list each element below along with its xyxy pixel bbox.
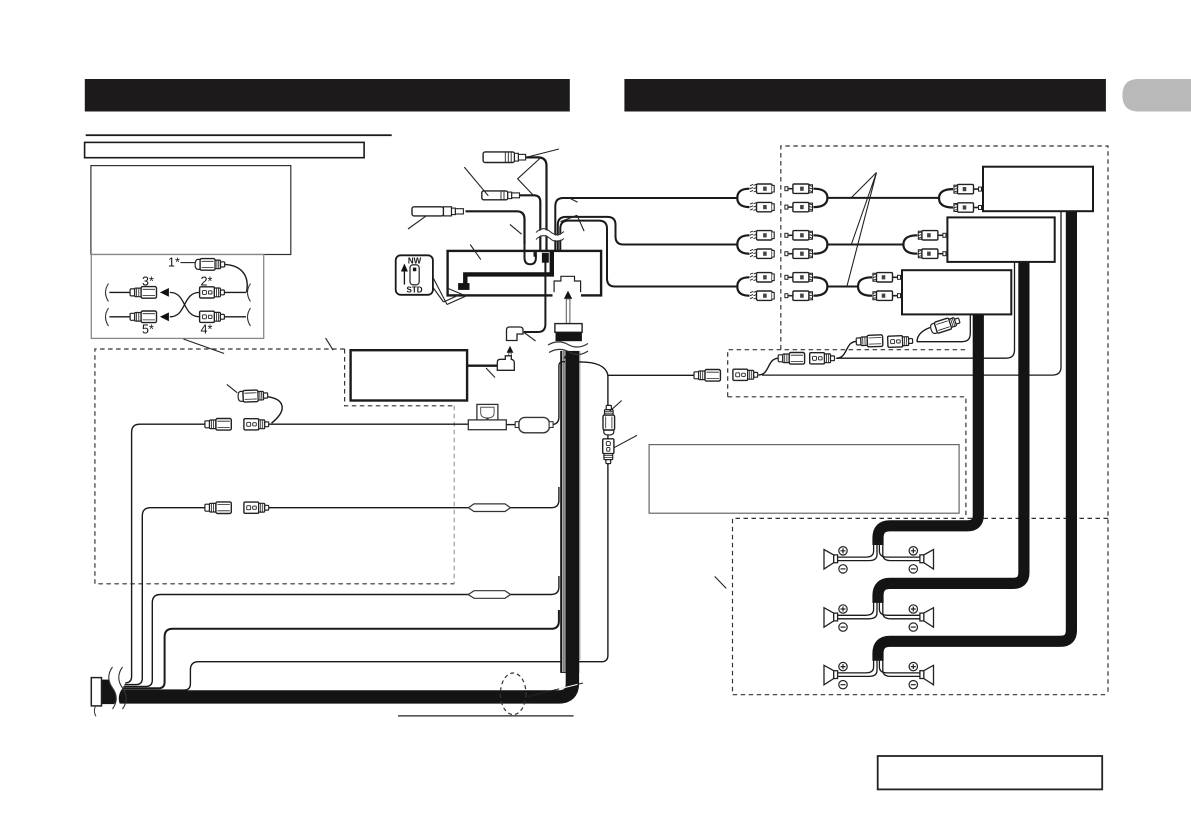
thick internal power wire bbox=[465, 252, 552, 285]
spade connector chain 3 bbox=[888, 335, 913, 347]
wire: chain link d-e bbox=[836, 342, 856, 359]
bullet connector chain 2 bbox=[778, 353, 804, 365]
wire: RCA row3 link bbox=[827, 286, 858, 288]
gray arrow under harness bbox=[564, 350, 572, 358]
bullet connector lead row2 bbox=[205, 502, 231, 514]
bottom label box bbox=[878, 756, 1102, 789]
tilted bullet connector bbox=[929, 315, 961, 335]
svg-text:4*: 4* bbox=[201, 323, 213, 337]
RCA pair row1 female bbox=[737, 184, 774, 212]
row B wire bbox=[109, 316, 131, 318]
wavy break on harness bbox=[549, 341, 588, 350]
RCA pair row2 male bbox=[785, 231, 828, 259]
antenna plug A bbox=[483, 152, 546, 251]
solid bundle stub at connector bbox=[101, 680, 114, 705]
gray arrow into plug bbox=[564, 291, 572, 299]
wire from bundle to IP-BUS plug bbox=[524, 262, 545, 332]
wires right of 2*/4* bbox=[225, 291, 246, 293]
header bar left bbox=[85, 79, 570, 112]
fuse bbox=[515, 417, 553, 432]
wire: chain link b-c bbox=[759, 358, 779, 375]
upper L plug bbox=[507, 327, 524, 341]
dashed amplifier region (right) bbox=[781, 146, 1108, 695]
bullet connector chain 3 bbox=[856, 335, 883, 348]
connector 1* bbox=[195, 259, 225, 271]
row A wire bbox=[109, 291, 131, 293]
leader lines near antennas bbox=[526, 149, 560, 158]
wire from fuse to harness bbox=[551, 362, 565, 425]
RCA pair row3 to amp3 bbox=[858, 273, 901, 301]
RCA pair row3 male bbox=[785, 273, 828, 301]
connector 5* bbox=[130, 311, 156, 323]
header bar right bbox=[624, 79, 1106, 112]
harness connector body bbox=[556, 332, 582, 341]
leader line through cable bend bbox=[528, 683, 583, 697]
speaker pair row 1 bbox=[838, 542, 920, 561]
spade connector chain 1 bbox=[733, 369, 758, 380]
speaker pair row 3 bbox=[838, 658, 920, 677]
bullet connector lead row1 bbox=[205, 419, 231, 431]
antenna bundle connector bbox=[542, 253, 549, 263]
amp box 1 bbox=[983, 167, 1093, 212]
wire: yellow lead row (battery) bbox=[108, 424, 468, 683]
amp box 2 bbox=[947, 217, 1054, 262]
wire holder-fuse bbox=[506, 424, 516, 426]
section underline bbox=[86, 134, 392, 136]
adapter connector above row1 bbox=[238, 390, 268, 403]
dashed harness region (left) bbox=[95, 349, 454, 584]
connector 3* bbox=[130, 287, 156, 299]
leader to speaker region bbox=[715, 576, 727, 588]
svg-text:1*: 1* bbox=[168, 256, 180, 270]
amp box 3 bbox=[902, 270, 1011, 314]
leader ticks on dashed box bbox=[183, 338, 333, 353]
wire: remote to amp1 bbox=[762, 211, 1061, 375]
cable: amp1 to rear speakers bbox=[878, 211, 1071, 660]
dashed connection sub-box bbox=[728, 350, 966, 518]
leader tick on head unit bbox=[470, 245, 481, 260]
oval joints on rows 2,3 bbox=[468, 504, 510, 598]
rear plug socket bbox=[554, 276, 581, 292]
wire: remote to amp3 bbox=[917, 314, 970, 341]
bullet connector chain 1 bbox=[694, 370, 720, 382]
wire harness connector (left) bbox=[91, 678, 101, 706]
U-loop end nub bbox=[534, 252, 537, 257]
connector 2* bbox=[200, 287, 225, 298]
spade connector lead row2 bbox=[244, 502, 269, 513]
cable: amp2 to middle speakers bbox=[878, 262, 1024, 603]
wire: orange lead row bbox=[108, 576, 559, 686]
wire: RCA row1 (rear output) bbox=[555, 198, 737, 251]
connector panel bbox=[91, 255, 263, 339]
hideaway unit box bbox=[351, 350, 468, 400]
wire arc from 1* bbox=[225, 264, 247, 292]
gap in bottom border for plug bbox=[553, 293, 582, 298]
wire: RCA row2 link bbox=[827, 244, 904, 246]
wavy break on antenna bundle bbox=[536, 232, 564, 238]
wire: RCA row2 (middle output) bbox=[558, 217, 738, 251]
label underline bbox=[398, 715, 574, 717]
branch from harness to remote chain bbox=[574, 362, 694, 375]
wire: RCA row3 (front output) bbox=[560, 221, 737, 287]
wire: remote to amp2 bbox=[837, 262, 1015, 358]
dashed ellipse marker bbox=[500, 673, 526, 715]
wire: tilted bullet tail bbox=[917, 328, 930, 342]
page tab bbox=[1122, 79, 1191, 112]
gray arrow bbox=[507, 346, 514, 353]
harness connector cap bbox=[555, 324, 582, 333]
antenna jack lead U-loop bbox=[525, 240, 536, 264]
spade connector lead row1 bbox=[244, 419, 269, 430]
svg-text:5*: 5* bbox=[142, 323, 154, 337]
RCA pair row1 to amp1 bbox=[939, 184, 982, 212]
RCA leader lines bbox=[847, 173, 877, 287]
internal wire connector bbox=[458, 283, 469, 290]
RCA pair row2 to amp2 (after box so pins show) bbox=[903, 231, 946, 259]
RCA pair row3 female bbox=[737, 273, 774, 301]
label box bbox=[85, 142, 365, 157]
speaker pair row 2 bbox=[838, 600, 920, 619]
cable: amp3 to front speakers bbox=[878, 314, 978, 545]
svg-text:STD: STD bbox=[407, 286, 423, 295]
fuse holder bbox=[468, 404, 506, 429]
inline male connector on remote lead bbox=[603, 405, 615, 435]
wire: black ground lead row bbox=[108, 610, 559, 688]
connector 4* bbox=[200, 311, 225, 322]
break squiggles bbox=[106, 284, 109, 302]
wire: red lead row (accessory) bbox=[108, 487, 559, 685]
antenna plug B bbox=[482, 191, 541, 251]
gap between mating connectors bbox=[231, 418, 243, 432]
crossover wires bbox=[170, 292, 200, 316]
antenna plug C bbox=[412, 207, 525, 244]
RCA pair row2 female bbox=[737, 231, 774, 259]
wire: system remote control lead bbox=[108, 375, 608, 690]
wire: RCA row1 link bbox=[827, 197, 939, 199]
strain relief gap bbox=[109, 667, 127, 709]
head unit rear view bbox=[448, 251, 601, 296]
striped harness cable bbox=[110, 351, 580, 697]
arrowheads bbox=[160, 288, 169, 297]
dashed speaker region bbox=[733, 518, 1109, 694]
RCA pair row1 male bbox=[785, 184, 828, 212]
inline female connector on remote lead bbox=[603, 439, 614, 464]
note box bbox=[649, 445, 959, 514]
lower L plug with wire to hideaway box bbox=[467, 365, 497, 367]
spade connector chain 2 bbox=[810, 353, 835, 364]
info box bbox=[91, 166, 291, 255]
